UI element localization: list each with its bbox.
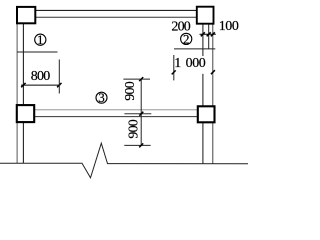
middle wall double lines xyxy=(34,110,198,117)
dim 200/100 ticks xyxy=(201,32,215,36)
column S1 top-left xyxy=(17,7,35,23)
dim 1000 bottom tick on right wall xyxy=(211,70,215,74)
dim 900 top boundary line xyxy=(123,78,150,80)
dim 1000 text background xyxy=(175,56,205,68)
svg-text:800: 800 xyxy=(31,69,50,84)
svg-text:900: 900 xyxy=(127,119,142,138)
top wall double lines xyxy=(34,10,198,17)
leader line under circled 2 xyxy=(174,48,215,50)
svg-text:200: 200 xyxy=(171,20,190,35)
svg-text:1: 1 xyxy=(174,56,181,71)
dim 800 right extension line xyxy=(58,60,60,94)
ground line with break xyxy=(0,143,248,178)
dim 1000 left short line xyxy=(173,55,175,80)
column S2 top-right xyxy=(197,7,214,24)
column S4 bottom-right xyxy=(198,106,215,122)
dim 900 vertical line xyxy=(140,79,142,145)
column S3 bottom-left xyxy=(17,105,34,122)
dim 900 middle tick xyxy=(139,112,143,116)
svg-text:100: 100 xyxy=(219,19,239,34)
dim 900 bottom tick xyxy=(139,143,143,147)
svg-text:900: 900 xyxy=(123,81,138,100)
dim 900 middle boundary line xyxy=(124,113,151,115)
circled 2 xyxy=(181,31,192,46)
left wall double lines xyxy=(17,22,23,163)
dim 200/100 line xyxy=(200,33,216,35)
dim 900 top tick xyxy=(139,77,143,81)
svg-text:000: 000 xyxy=(186,56,206,71)
right wall double lines xyxy=(203,23,213,164)
dim 900 bottom boundary line xyxy=(124,144,150,146)
dim 1000 left tick xyxy=(172,70,176,74)
circled 3 xyxy=(96,90,107,105)
axis stub under top-right column xyxy=(208,23,210,49)
leader line under circled 1 xyxy=(17,51,57,53)
dim 800 line xyxy=(21,84,60,86)
circled 1 xyxy=(35,32,46,47)
svg-text:3: 3 xyxy=(98,90,105,105)
dim 800 ticks xyxy=(21,83,61,87)
svg-text:1: 1 xyxy=(37,32,44,47)
